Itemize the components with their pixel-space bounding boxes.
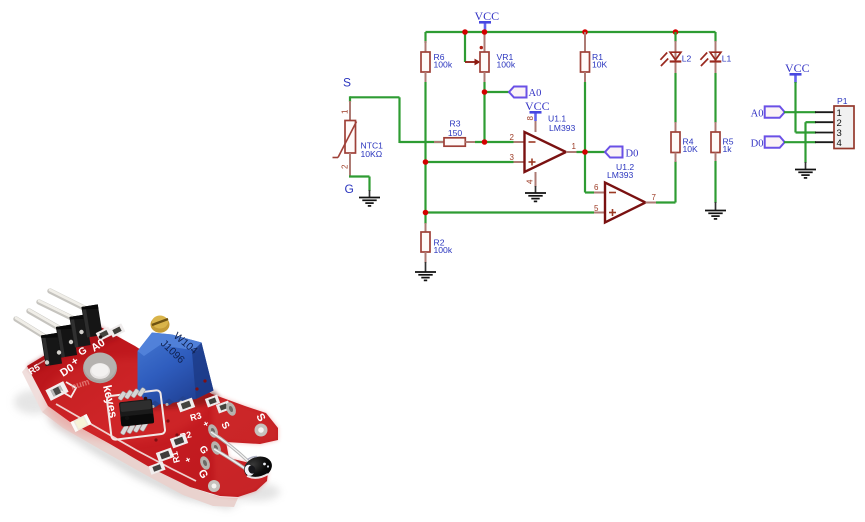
svg-text:L2: L2 (682, 53, 692, 63)
wire VR1 bottom to A0 node and R3 node (483, 82, 485, 142)
module photo: silkscreen border line (56, 404, 196, 481)
wire rail to L2 (674, 32, 676, 42)
svg-text:150: 150 (448, 128, 463, 138)
op-amp U1.2 (594, 162, 657, 223)
module photo: header pin 3 (39, 301, 78, 321)
module photo: white bracket outline near D0 (61, 382, 76, 397)
svg-text:R3: R3 (450, 118, 461, 128)
resistor R4 (671, 122, 698, 162)
module photo: pot shadow on board (140, 390, 220, 410)
SCHEMATIC GROUP (333, 9, 855, 280)
svg-text:P1: P1 (837, 96, 848, 106)
module photo: PCB side strip (42, 406, 238, 507)
junction rail/R1 (582, 29, 588, 35)
wire L1 to R5 (714, 73, 716, 123)
svg-text:A0: A0 (751, 109, 764, 120)
svg-text:A0: A0 (529, 88, 542, 99)
svg-text:100k: 100k (434, 60, 453, 70)
svg-text:U1.1: U1.1 (548, 114, 566, 124)
svg-text:10K: 10K (592, 60, 608, 70)
module photo: IC pins bottom (120, 421, 148, 435)
net label A0 (left) (509, 87, 541, 100)
module photo: IC silk outline (107, 390, 166, 440)
svg-text:10K: 10K (683, 144, 699, 154)
svg-text:S: S (343, 76, 351, 90)
wire S horizontal (350, 96, 400, 98)
module photo: header solder nubs (45, 360, 49, 364)
svg-text:4: 4 (837, 138, 842, 149)
module photo: via dots (166, 419, 169, 422)
wire R6 branch top (424, 32, 426, 43)
module photo: LED chip (70, 414, 91, 432)
module photo: IC body (LM393 SOIC-8) (119, 399, 154, 427)
svg-text:2: 2 (510, 133, 515, 142)
net label D0 (right) (751, 136, 785, 149)
module photo: header pin 1 (16, 318, 50, 340)
module photo: board sheen (45, 358, 205, 442)
wire R3 to U1.1 pin2 (475, 141, 514, 143)
svg-text:VCC: VCC (474, 9, 499, 23)
svg-text:5: 5 (594, 204, 599, 213)
resistor R2 (421, 223, 453, 263)
resistor R3 (400, 118, 477, 146)
svg-text:10KΩ: 10KΩ (361, 149, 383, 159)
junction rail/L2 (673, 29, 679, 35)
svg-text:100k: 100k (434, 245, 453, 255)
wire S vertical to R3 line (398, 97, 400, 143)
junction R3/VR1 node (482, 139, 488, 145)
wire rail to L1 (714, 32, 716, 42)
wire U1.2 pin5 line (426, 211, 595, 213)
ground (U1.1 pin4) (525, 186, 546, 201)
resistor R6 (421, 41, 453, 83)
svg-text:7: 7 (652, 193, 657, 202)
module photo: header plastic blocks (41, 333, 62, 366)
wire U1.2 output to R4 (656, 201, 676, 203)
wire U1.1 output to D0 node (577, 151, 606, 153)
module photo: header pin 2 (29, 310, 64, 331)
wire VCC to P1 pin3 (794, 82, 796, 133)
svg-text:8: 8 (526, 116, 535, 121)
module photo: header pin 4 (50, 290, 90, 311)
connector P1 (815, 96, 854, 149)
module photo: PCB red board face (27, 325, 278, 497)
wire R5 to ground (714, 161, 716, 203)
op-amp U1.1 (510, 114, 578, 188)
junction rail/VR1 (482, 29, 488, 35)
wire ladder below R6 (424, 82, 426, 224)
svg-text:D0: D0 (626, 148, 639, 159)
module photo: mounting hole (83, 353, 117, 383)
resistor R5 (711, 122, 734, 162)
svg-text:1k: 1k (723, 144, 733, 154)
LED L1 (700, 41, 731, 74)
wire VR1 wiper branch (464, 32, 466, 62)
svg-text:4: 4 (526, 179, 535, 184)
svg-text:100k: 100k (497, 60, 516, 70)
svg-text:G: G (345, 182, 354, 196)
thermistor NTC1 (333, 101, 384, 177)
junction node A0 (482, 89, 488, 95)
ground (below NTC) (359, 190, 380, 206)
wire D0 to P1 pin4 (784, 141, 816, 143)
module photo: potentiometer screw (151, 316, 170, 332)
module photo: oval solder pads (224, 401, 238, 417)
VCC power symbol (U1.1 pin8) (525, 99, 550, 121)
module photo: thermistor bead (241, 453, 275, 482)
VCC power symbol (top center) (474, 9, 499, 32)
junction D0 node (582, 149, 588, 155)
svg-text:1: 1 (572, 142, 577, 151)
svg-text:LM393: LM393 (549, 123, 575, 133)
net label D0 (left) (605, 147, 638, 160)
module photo: IC pins top (118, 387, 146, 401)
junction pin5 ladder (423, 210, 429, 216)
LED L2 (660, 41, 691, 74)
wire P1 pin2 to ground (806, 121, 817, 123)
module photo: potentiometer feet (150, 396, 188, 408)
junction pin3 ladder (423, 159, 429, 165)
wire L2 to R4 (674, 73, 676, 123)
VCC power symbol (connector) (785, 61, 810, 83)
module photo: potentiometer body (138, 333, 214, 406)
svg-text:D0: D0 (751, 139, 764, 150)
ground (connector pin2) (795, 162, 816, 178)
potentiometer VR1 (465, 32, 516, 83)
ground (below R2) (415, 262, 436, 280)
wire NTC to ground (349, 175, 370, 177)
module photo: ring pads (255, 424, 268, 437)
module photo: drop shadow (44, 410, 244, 509)
junction rail/wiper (462, 29, 468, 35)
svg-text:1: 1 (341, 109, 350, 114)
svg-text:2: 2 (341, 164, 350, 169)
wire A0 stub (485, 91, 510, 93)
module photo: chips near top edge (96, 327, 113, 341)
net label A0 (right) (751, 106, 785, 119)
svg-text:3: 3 (510, 153, 515, 162)
module photo: thermistor leads (211, 432, 249, 462)
svg-text:L1: L1 (722, 53, 732, 63)
wire U1.1 pin3 line (426, 161, 514, 163)
wire R1 bottom to D0 node (584, 82, 586, 193)
svg-text:VCC: VCC (525, 99, 550, 113)
resistor R1 (581, 32, 608, 83)
wire to U1.2 pin6 (585, 191, 594, 193)
svg-text:6: 6 (594, 183, 599, 192)
wire top power rail (426, 31, 716, 33)
svg-text:VCC: VCC (785, 61, 810, 75)
svg-text:LM393: LM393 (607, 170, 633, 180)
ground (below R5) (705, 202, 726, 219)
wire S stub to NTC (349, 96, 351, 102)
wire A0 to P1 pin1 (784, 111, 816, 113)
